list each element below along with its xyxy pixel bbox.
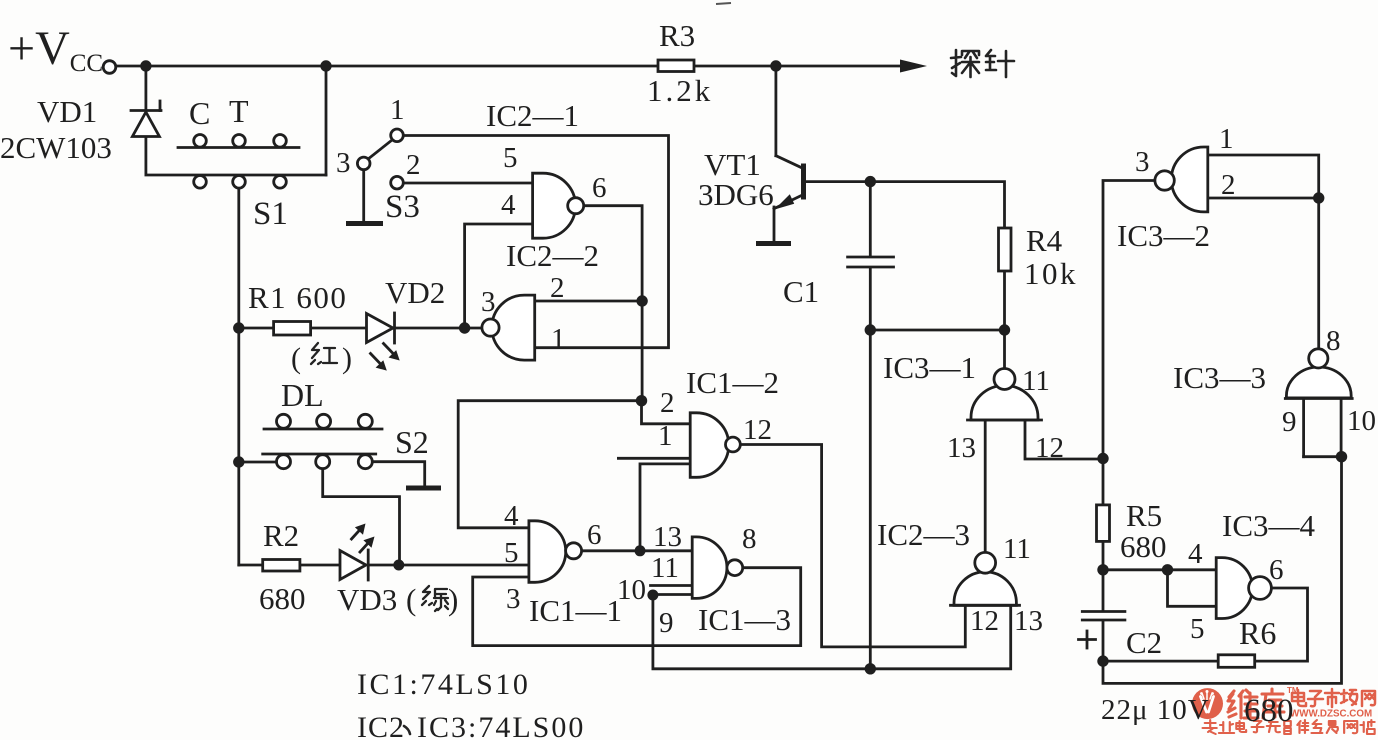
wire R4 bottom bbox=[1003, 271, 1006, 330]
svg-text:8: 8 bbox=[742, 523, 757, 555]
svg-text:3: 3 bbox=[1135, 146, 1150, 178]
svg-text:IC3—2: IC3—2 bbox=[1117, 218, 1210, 253]
svg-text:13: 13 bbox=[653, 521, 682, 553]
terminal +Vcc bbox=[103, 61, 116, 74]
svg-text:3: 3 bbox=[336, 147, 351, 179]
svg-text:8: 8 bbox=[1326, 325, 1341, 357]
svg-text:IC2—2: IC2—2 bbox=[506, 238, 599, 273]
wire IC1-1 pin3 feedback from IC1-3 output bbox=[473, 568, 801, 646]
svg-text:C2: C2 bbox=[1126, 625, 1162, 660]
svg-text:680: 680 bbox=[259, 581, 306, 616]
svg-text:IC3—1: IC3—1 bbox=[883, 350, 976, 385]
glyph lv green bbox=[422, 586, 448, 611]
wire IC3-2 pin2 bbox=[1208, 197, 1319, 200]
gate IC3-2 NAND mirrored bbox=[1155, 147, 1208, 212]
watermark logo circle bbox=[1192, 688, 1223, 719]
junction S1 right branch at Vcc rail bbox=[320, 60, 331, 71]
svg-text:IC2—3: IC2—3 bbox=[877, 517, 970, 552]
transistor VT1 bbox=[774, 156, 804, 242]
wire left rail corner into R2 bbox=[239, 564, 263, 567]
resistor R4 bbox=[999, 228, 1012, 271]
wire VD1 top lead bbox=[144, 66, 147, 109]
wire R1 to VD2 bbox=[311, 327, 367, 330]
junction IC1-3 pin10 node bbox=[647, 590, 658, 601]
svg-text:12: 12 bbox=[1035, 432, 1064, 464]
svg-text:5: 5 bbox=[504, 537, 519, 569]
svg-text:10: 10 bbox=[617, 574, 646, 606]
svg-text:VD3: VD3 bbox=[337, 582, 397, 617]
wire VT1 base to R4 top bbox=[806, 182, 1005, 228]
wire VT1 collector bbox=[775, 66, 778, 156]
wire pin10 node down to bottom bus bbox=[653, 595, 1011, 669]
wire top Vcc rail left bbox=[117, 65, 659, 68]
svg-text:12: 12 bbox=[970, 605, 999, 637]
svg-text:IC3—3: IC3—3 bbox=[1173, 360, 1266, 395]
wire IC3-3 input9 leg bbox=[1302, 399, 1305, 457]
wire R6 to C2 node bbox=[1103, 660, 1218, 663]
svg-text:4: 4 bbox=[1188, 538, 1203, 570]
svg-text:IC1—3: IC1—3 bbox=[698, 602, 791, 637]
svg-text:T: T bbox=[229, 93, 249, 129]
junction node 2 latch cross-couple bbox=[636, 395, 647, 406]
junction C1 column at bottom bus bbox=[865, 663, 876, 674]
svg-text:IC3—4: IC3—4 bbox=[1222, 508, 1316, 543]
svg-text:): ) bbox=[448, 582, 458, 617]
gate IC2-1 NAND bbox=[533, 173, 584, 238]
wire R5 bottom to C2 node bbox=[1102, 541, 1105, 610]
svg-text:C1: C1 bbox=[783, 274, 819, 309]
svg-text:S1: S1 bbox=[253, 196, 288, 232]
svg-text:2: 2 bbox=[550, 272, 565, 304]
svg-text:13: 13 bbox=[1014, 605, 1043, 637]
glyph hong red bbox=[311, 343, 337, 364]
svg-text:WWW.DZSC.COM: WWW.DZSC.COM bbox=[1290, 709, 1372, 720]
svg-text:IC1:74LS10: IC1:74LS10 bbox=[357, 668, 530, 701]
svg-text:6: 6 bbox=[587, 519, 602, 551]
wire top rail R3 to arrow bbox=[694, 65, 903, 68]
svg-text:IC2: IC2 bbox=[357, 711, 405, 740]
gate IC3-4 NAND bbox=[1216, 558, 1271, 619]
junction C1 bottom link bbox=[865, 324, 876, 335]
wire IC2-3 output up to IC3-1 input13 bbox=[984, 420, 987, 552]
wire IC1-2 pin13 input from latch node bbox=[640, 464, 690, 551]
capacitor C1 bbox=[848, 257, 894, 267]
svg-text:12: 12 bbox=[743, 414, 772, 446]
wire S3 pin1 to IC2-2 pin1 bbox=[404, 136, 669, 348]
wire R1 row left bbox=[239, 327, 274, 330]
ground VT1 emitter bbox=[756, 241, 791, 246]
svg-text:11: 11 bbox=[1022, 365, 1050, 397]
svg-text:5: 5 bbox=[503, 142, 518, 174]
junction left rail at S2 row bbox=[233, 456, 244, 467]
wire IC1-2 output to IC2-3 pin12 bbox=[740, 445, 965, 647]
svg-text:680: 680 bbox=[1120, 529, 1167, 564]
junction VD1 at Vcc rail bbox=[140, 60, 151, 71]
watermark zi char bbox=[1308, 691, 1323, 706]
svg-text:22μ 10V: 22μ 10V bbox=[1101, 694, 1210, 726]
junction node VD2 / IC2-1 pin4 / IC2-2 pin3 bbox=[459, 322, 470, 333]
svg-text:): ) bbox=[342, 342, 352, 375]
svg-text:R1 600: R1 600 bbox=[248, 280, 347, 315]
svg-text:4: 4 bbox=[501, 189, 516, 221]
svg-text:1.2k: 1.2k bbox=[647, 73, 713, 108]
wire left rail from S1 to R2 bbox=[237, 189, 240, 565]
glyph zhen needle bbox=[986, 50, 1014, 77]
svg-text:5: 5 bbox=[1190, 613, 1205, 645]
svg-text:R2: R2 bbox=[263, 518, 299, 553]
svg-text:S3: S3 bbox=[385, 189, 420, 225]
svg-text:IC3:74LS00: IC3:74LS00 bbox=[417, 711, 585, 740]
resistor R3 bbox=[658, 60, 694, 72]
gate IC3-1 NAND vertical bbox=[968, 369, 1042, 421]
watermark wei char bbox=[1228, 690, 1258, 718]
resistor R1 bbox=[274, 322, 311, 336]
wire IC3-3 input tie bar bbox=[1304, 455, 1342, 458]
wire IC1-1 output to IC1-3 input bbox=[582, 549, 693, 552]
svg-text:2: 2 bbox=[1221, 169, 1236, 201]
svg-text:2: 2 bbox=[406, 149, 421, 181]
svg-text:VD2: VD2 bbox=[385, 275, 445, 310]
watermark wang char bbox=[1362, 691, 1375, 706]
svg-text:3: 3 bbox=[481, 286, 496, 318]
svg-text:1: 1 bbox=[551, 323, 566, 355]
switch S2 / DL bbox=[263, 414, 382, 468]
junction IC1-1 out / pin13 node bbox=[635, 545, 646, 556]
wire IC3-2 output column bbox=[1103, 181, 1155, 505]
junction IC3-4 pin4-pin5 tie bbox=[1162, 564, 1173, 575]
wire S1 right branch bbox=[325, 66, 328, 175]
junction IC3-3 input tie at right rail bbox=[1336, 451, 1347, 462]
wire C1 bottom lead down to bottom bus bbox=[869, 269, 872, 669]
wire S1 upper contact row bbox=[178, 146, 299, 149]
LED VD3 bbox=[340, 524, 375, 581]
wire IC3-4 pin5 tie bbox=[1168, 570, 1217, 607]
wire IC3-2 pin1 bbox=[1208, 155, 1319, 198]
svg-text:1: 1 bbox=[390, 94, 405, 126]
wire S2 left contact to rail bbox=[239, 461, 276, 464]
svg-text:R4: R4 bbox=[1026, 223, 1063, 258]
svg-text:IC2—1: IC2—1 bbox=[486, 98, 579, 133]
ground S2 bbox=[406, 486, 441, 491]
svg-text:(: ( bbox=[291, 342, 301, 375]
svg-text:VD1: VD1 bbox=[37, 94, 97, 129]
switch S3 bbox=[357, 129, 403, 221]
zener diode VD1 bbox=[131, 101, 161, 137]
wire IC3-1 output up to C1/R4 node bbox=[1003, 330, 1006, 369]
ground S3 bbox=[346, 221, 383, 226]
junction VT1 collector at probe rail bbox=[770, 60, 781, 71]
wire VD3 row to IC1-1 pin5 bbox=[368, 564, 529, 567]
wire IC3-2 node down to IC3-3 output 8 bbox=[1317, 198, 1320, 349]
svg-text:4: 4 bbox=[504, 500, 519, 532]
watermark dian char bbox=[1292, 690, 1306, 706]
wire C1 top lead bbox=[869, 182, 872, 256]
stray scan dash top bbox=[716, 3, 731, 4]
svg-text:R6: R6 bbox=[1239, 615, 1276, 651]
svg-text:1: 1 bbox=[658, 420, 673, 452]
junction IC3-1 pin12 at R5 column bbox=[1097, 453, 1108, 464]
watermark ku char bbox=[1262, 689, 1284, 718]
watermark shi char bbox=[1325, 689, 1339, 707]
svg-text:2CW103: 2CW103 bbox=[0, 130, 112, 165]
svg-text:9: 9 bbox=[659, 607, 674, 639]
wire VD2 to IC2-2 output bbox=[395, 327, 482, 330]
svg-text:(: ( bbox=[406, 582, 416, 617]
svg-text:11: 11 bbox=[651, 552, 679, 584]
svg-text:IC1—1: IC1—1 bbox=[529, 593, 622, 628]
svg-text:DL: DL bbox=[281, 377, 324, 413]
wire IC1-2 pin1 stub bbox=[618, 457, 690, 460]
wire IC3-4 output to R6 bbox=[1255, 588, 1308, 661]
svg-text:S2: S2 bbox=[395, 424, 429, 460]
wire IC1-3 pin10 input bbox=[653, 593, 692, 596]
wire VD1 bottom lead to S1 lower row bbox=[146, 137, 326, 175]
resistor R6 bbox=[1218, 655, 1255, 668]
wire node pin4 vertical to IC2-1 bbox=[465, 224, 533, 328]
junction R4 bottom / IC3-1 out bbox=[999, 324, 1010, 335]
watermark chang char bbox=[1341, 690, 1357, 705]
wire S2 right contact to ground bbox=[373, 462, 425, 486]
svg-text:IC1—2: IC1—2 bbox=[686, 365, 779, 400]
junction IC3-2 pin1-pin2 tie bbox=[1313, 192, 1324, 203]
capacitor C2 polarized bbox=[1079, 612, 1125, 649]
switch S1 bbox=[194, 135, 287, 189]
wire IC2-1 output to IC2-2 pin2 and down bbox=[584, 206, 643, 401]
gate IC2-3 NAND vertical bbox=[951, 552, 1020, 605]
svg-text:13: 13 bbox=[947, 432, 976, 464]
probe arrow bbox=[900, 60, 927, 73]
svg-text:R3: R3 bbox=[659, 18, 695, 53]
wire IC3-1 pin12 to R5 column bbox=[1025, 420, 1103, 459]
wire node to IC3-4 pin4 bbox=[1103, 568, 1216, 571]
wire R2 to VD3 bbox=[300, 564, 340, 567]
gate IC1-2 NAND bbox=[690, 413, 740, 478]
wire C2 bottom to bottom-right rail bbox=[1103, 457, 1342, 684]
wire IC2-2 pin2 stub bbox=[535, 300, 642, 303]
wire IC1-3 pin11 stub bbox=[651, 584, 693, 587]
gate IC1-1 NAND bbox=[529, 521, 582, 583]
resistor R5 bbox=[1097, 505, 1110, 542]
svg-text:1: 1 bbox=[1219, 123, 1234, 155]
wire S3 pin2 to IC2-1 pin5 bbox=[404, 182, 533, 185]
svg-text:11: 11 bbox=[1003, 533, 1031, 565]
wire IC3-3 input10 leg bbox=[1340, 399, 1343, 457]
junction IC2-1 out at IC2-2 pin2 bbox=[636, 295, 647, 306]
svg-text:C: C bbox=[189, 95, 210, 131]
svg-text:10: 10 bbox=[1347, 405, 1376, 437]
resistor R2 bbox=[263, 560, 300, 572]
svg-text:10k: 10k bbox=[1024, 256, 1078, 291]
svg-text:3DG6: 3DG6 bbox=[698, 177, 774, 212]
gate IC2-2 NAND mirrored bbox=[482, 295, 535, 360]
watermark slogan chars bbox=[1203, 720, 1375, 734]
junction C2 bottom / R6 node bbox=[1097, 655, 1108, 666]
junction left rail at R1 row bbox=[233, 322, 244, 333]
wire S2 middle contact down to VD3 node bbox=[323, 469, 400, 565]
LED VD2 bbox=[367, 313, 400, 371]
junction VD3 / S2 node bbox=[393, 560, 404, 571]
wire cross-couple to IC1-1 pin4 bbox=[458, 401, 641, 528]
wire node to IC1-2 pin2 bbox=[642, 401, 691, 424]
glyph tan probe bbox=[951, 50, 979, 77]
junction VT1 base / C1 top bbox=[865, 176, 876, 187]
wire C1 to R4 horizontal link bbox=[870, 329, 1004, 332]
svg-text:6: 6 bbox=[1269, 554, 1284, 586]
svg-text:6: 6 bbox=[592, 172, 607, 204]
svg-text:2: 2 bbox=[660, 387, 675, 419]
junction R5 / C2 / IC3-4 node bbox=[1097, 564, 1108, 575]
gate IC3-3 NAND vertical bbox=[1285, 349, 1352, 399]
svg-text:9: 9 bbox=[1282, 406, 1297, 438]
svg-text:680: 680 bbox=[1244, 693, 1294, 729]
gate IC1-3 NAND bbox=[692, 537, 742, 599]
svg-text:R5: R5 bbox=[1126, 498, 1162, 533]
svg-text:3: 3 bbox=[506, 583, 521, 615]
